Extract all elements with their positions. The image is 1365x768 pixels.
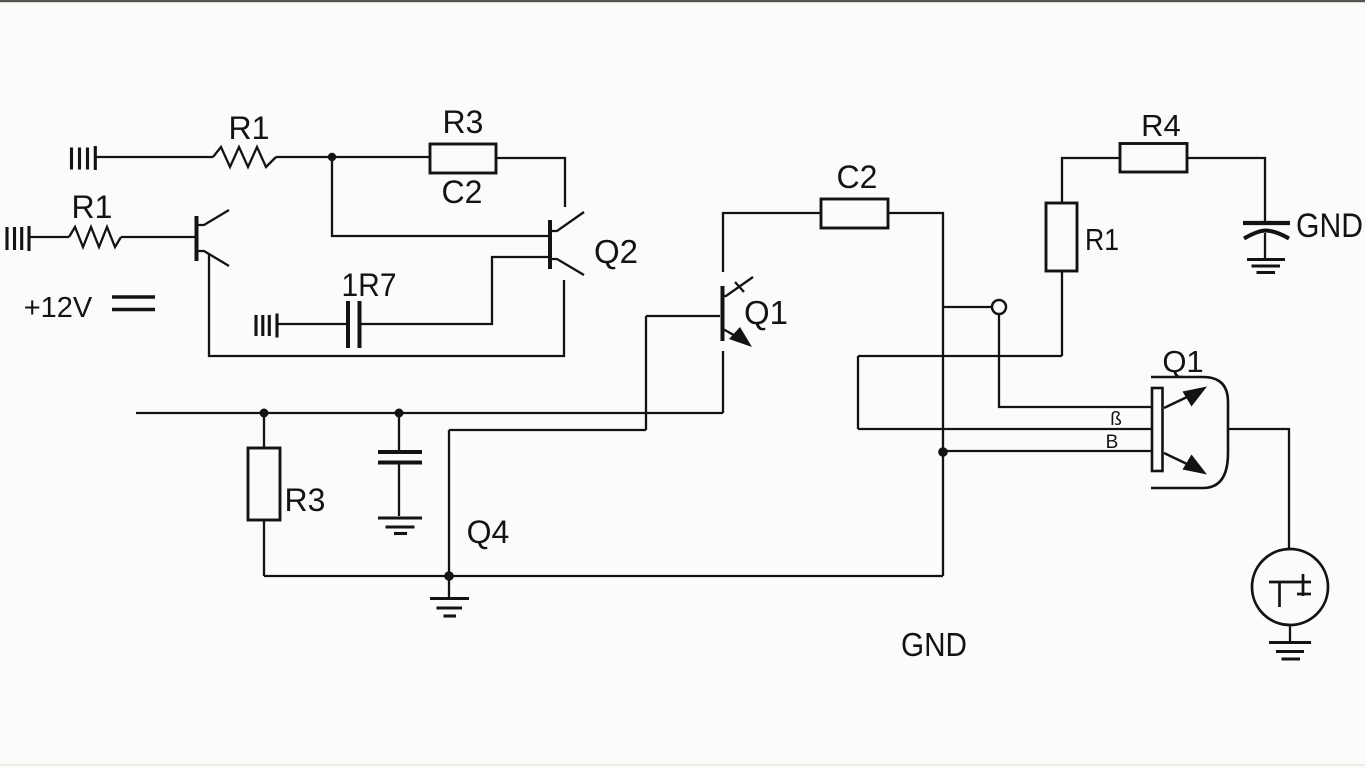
svg-text:GND: GND	[901, 626, 967, 663]
svg-text:R1: R1	[229, 110, 270, 146]
svg-text:R3: R3	[443, 104, 484, 140]
svg-text:Q1: Q1	[1162, 344, 1203, 379]
svg-text:R1: R1	[1085, 222, 1119, 257]
svg-text:GND: GND	[1296, 207, 1363, 245]
svg-text:R3: R3	[285, 482, 326, 518]
svg-text:R1: R1	[72, 189, 113, 225]
svg-text:1R7: 1R7	[342, 267, 397, 303]
svg-text:C2: C2	[442, 174, 483, 210]
svg-text:ß: ß	[1110, 409, 1122, 430]
svg-text:Q2: Q2	[594, 233, 638, 270]
svg-text:B: B	[1106, 432, 1119, 453]
svg-text:+12V: +12V	[24, 292, 93, 324]
svg-text:R4: R4	[1141, 108, 1181, 143]
svg-text:C2: C2	[837, 159, 878, 195]
svg-text:Q1: Q1	[744, 294, 788, 331]
svg-text:Q4: Q4	[467, 514, 510, 550]
